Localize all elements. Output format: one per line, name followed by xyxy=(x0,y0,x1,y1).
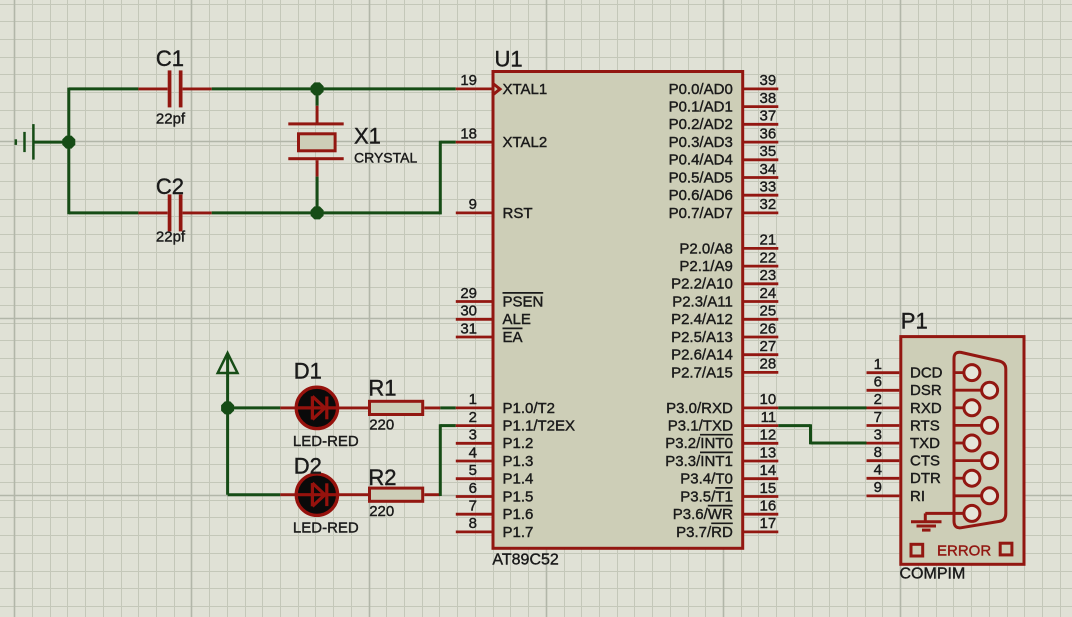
LED D1 xyxy=(280,406,295,409)
pin 32 P0.7/AD7 xyxy=(744,211,778,214)
svg-text:P1.5: P1.5 xyxy=(503,488,534,505)
resistor R1 xyxy=(370,401,423,414)
pin 8 CTS xyxy=(867,459,900,462)
LED D2 xyxy=(280,493,295,496)
svg-text:7: 7 xyxy=(469,498,477,515)
pin 2 RXD xyxy=(867,406,900,409)
svg-text:RI: RI xyxy=(910,488,925,505)
svg-text:CRYSTAL: CRYSTAL xyxy=(354,149,417,165)
pin 37 P0.2/AD2 xyxy=(744,123,778,126)
svg-text:D2: D2 xyxy=(294,454,322,479)
pin 25 P2.4/A12 xyxy=(744,318,778,321)
pin 1 P1.0/T2 xyxy=(456,406,492,409)
svg-text:R1: R1 xyxy=(368,375,396,400)
pin 3 P1.2 xyxy=(456,442,492,445)
svg-text:36: 36 xyxy=(760,125,777,142)
wire R2 up to pin2 xyxy=(439,424,442,496)
svg-text:P2.7/A15: P2.7/A15 xyxy=(671,364,733,381)
pin 10 P3.0/RXD xyxy=(744,406,778,409)
svg-text:37: 37 xyxy=(760,108,777,125)
pin 7 RTS xyxy=(867,424,900,427)
svg-text:39: 39 xyxy=(760,72,777,89)
wire P3.1 TXD xyxy=(778,424,810,427)
svg-text:38: 38 xyxy=(760,90,777,107)
svg-text:ERROR: ERROR xyxy=(937,542,991,559)
svg-text:P3.0/RXD: P3.0/RXD xyxy=(666,400,733,417)
wire gnd to junction xyxy=(33,141,68,144)
resistor R2 xyxy=(370,488,423,501)
crystal X1 xyxy=(316,89,319,106)
svg-text:23: 23 xyxy=(760,267,777,284)
svg-text:P3.1/TXD: P3.1/TXD xyxy=(668,418,733,435)
pin 14 P3.4/T0 xyxy=(744,477,778,480)
power arrow xyxy=(226,354,229,408)
pin 6 P1.5 xyxy=(456,495,492,498)
svg-text:8: 8 xyxy=(874,444,882,461)
DB9 shell xyxy=(954,352,1006,528)
svg-text:RTS: RTS xyxy=(910,417,940,434)
svg-text:220: 220 xyxy=(369,503,394,520)
svg-text:13: 13 xyxy=(760,444,777,461)
pin 29 PSEN xyxy=(456,300,492,303)
pin 5 P1.4 xyxy=(456,477,492,480)
svg-text:21: 21 xyxy=(760,232,777,249)
svg-text:U1: U1 xyxy=(495,47,523,72)
svg-text:X1: X1 xyxy=(354,124,381,149)
capacitor C1 xyxy=(138,87,167,90)
pin 4 DTR xyxy=(867,477,900,480)
wire R1 to pin1 xyxy=(440,406,456,409)
svg-text:33: 33 xyxy=(760,179,777,196)
svg-text:DTR: DTR xyxy=(910,470,941,487)
svg-text:14: 14 xyxy=(760,462,777,479)
svg-text:32: 32 xyxy=(760,196,777,213)
connector ground xyxy=(911,513,964,530)
pin 9 RI xyxy=(867,494,900,497)
svg-text:4: 4 xyxy=(874,462,882,479)
pin 4 P1.3 xyxy=(456,460,492,463)
svg-text:31: 31 xyxy=(460,320,477,337)
svg-text:12: 12 xyxy=(760,427,777,444)
svg-text:P3.2/INT0: P3.2/INT0 xyxy=(665,435,733,452)
svg-text:22: 22 xyxy=(760,249,777,266)
svg-text:RST: RST xyxy=(503,205,533,222)
svg-text:P2.6/A14: P2.6/A14 xyxy=(671,347,733,364)
svg-text:P1: P1 xyxy=(901,309,928,334)
svg-text:220: 220 xyxy=(369,416,394,433)
svg-text:26: 26 xyxy=(760,320,777,337)
svg-text:19: 19 xyxy=(460,72,477,89)
svg-text:P3.7/RD: P3.7/RD xyxy=(676,524,733,541)
svg-text:28: 28 xyxy=(760,356,777,373)
node XTAL1 junction xyxy=(311,82,324,95)
svg-text:8: 8 xyxy=(469,515,477,532)
ERROR indicator xyxy=(911,544,923,556)
svg-text:P3.5/T1: P3.5/T1 xyxy=(680,488,733,505)
svg-text:ALE: ALE xyxy=(503,311,531,328)
svg-text:P0.1/AD1: P0.1/AD1 xyxy=(669,99,733,116)
pin 15 P3.5/T1 xyxy=(744,495,778,498)
wire junction to D1 xyxy=(228,406,281,409)
ground xyxy=(16,124,34,160)
svg-text:4: 4 xyxy=(469,444,477,461)
svg-text:P0.4/AD4: P0.4/AD4 xyxy=(669,152,733,169)
wire C1 row left xyxy=(69,87,139,90)
wire C2 to corner xyxy=(212,211,442,214)
svg-text:D1: D1 xyxy=(294,359,322,384)
svg-text:EA: EA xyxy=(503,329,523,346)
svg-text:15: 15 xyxy=(760,480,777,497)
svg-text:P2.0/A8: P2.0/A8 xyxy=(679,240,732,257)
svg-text:6: 6 xyxy=(874,374,882,391)
node XTAL2 junction xyxy=(311,206,324,219)
pin 36 P0.3/AD3 xyxy=(744,141,778,144)
pin 6 DSR xyxy=(867,389,900,392)
node gnd junction xyxy=(62,136,75,149)
svg-text:10: 10 xyxy=(760,391,777,408)
pin 35 P0.4/AD4 xyxy=(744,158,778,161)
pin 24 P2.3/A11 xyxy=(744,300,778,303)
pin 7 P1.6 xyxy=(456,513,492,516)
svg-text:P1.2: P1.2 xyxy=(503,435,534,452)
DB9 pin lines xyxy=(954,373,982,496)
wire C1 to chip xyxy=(212,87,456,90)
DB9 holes left column xyxy=(964,365,980,381)
pin 2 P1.1/T2EX xyxy=(456,424,492,427)
wire up to XTAL2 pin xyxy=(439,141,442,214)
svg-text:P1.3: P1.3 xyxy=(503,453,534,470)
svg-text:P0.3/AD3: P0.3/AD3 xyxy=(669,134,733,151)
svg-text:29: 29 xyxy=(460,285,477,302)
pin 8 P1.7 xyxy=(456,531,492,534)
wire P3.0 RXD xyxy=(778,406,866,409)
svg-text:3: 3 xyxy=(469,427,477,444)
svg-text:COMPIM: COMPIM xyxy=(900,566,966,583)
svg-text:P2.3/A11: P2.3/A11 xyxy=(672,293,733,310)
svg-text:P0.0/AD0: P0.0/AD0 xyxy=(669,81,733,98)
svg-text:PSEN: PSEN xyxy=(503,293,544,310)
svg-text:TXD: TXD xyxy=(910,435,940,452)
pin 9 RST xyxy=(456,211,492,214)
svg-text:P0.2/AD2: P0.2/AD2 xyxy=(669,116,733,133)
svg-text:DSR: DSR xyxy=(910,382,942,399)
svg-text:P1.4: P1.4 xyxy=(503,471,534,488)
svg-text:RXD: RXD xyxy=(910,400,942,417)
svg-text:P1.6: P1.6 xyxy=(503,506,534,523)
svg-text:XTAL2: XTAL2 xyxy=(503,134,548,151)
capacitor C2 xyxy=(138,211,167,214)
pin 16 P3.6/WR xyxy=(744,513,778,516)
svg-text:16: 16 xyxy=(760,498,777,515)
svg-text:6: 6 xyxy=(469,480,477,497)
pin 34 P0.5/AD5 xyxy=(744,176,778,179)
svg-text:P2.1/A9: P2.1/A9 xyxy=(679,258,732,275)
svg-text:11: 11 xyxy=(761,409,777,426)
svg-text:CTS: CTS xyxy=(910,453,940,470)
svg-text:35: 35 xyxy=(760,143,777,160)
svg-text:17: 17 xyxy=(760,515,777,532)
pin 1 DCD xyxy=(867,371,900,374)
pin 28 P2.7/A15 xyxy=(744,371,778,374)
svg-text:P3.4/T0: P3.4/T0 xyxy=(680,471,733,488)
svg-text:LED-RED: LED-RED xyxy=(293,433,359,450)
pin 22 P2.1/A9 xyxy=(744,265,778,268)
svg-text:P3.3/INT1: P3.3/INT1 xyxy=(665,453,733,470)
svg-text:P2.4/A12: P2.4/A12 xyxy=(671,311,733,328)
pin 13 P3.3/INT1 xyxy=(744,460,778,463)
pin 11 P3.1/TXD xyxy=(744,424,778,427)
svg-text:LED-RED: LED-RED xyxy=(293,520,359,537)
pin 31 EA xyxy=(456,336,492,339)
svg-text:DCD: DCD xyxy=(910,365,943,382)
svg-text:P1.1/T2EX: P1.1/T2EX xyxy=(503,418,576,435)
IC U1 AT89C52 body xyxy=(493,72,743,549)
svg-text:30: 30 xyxy=(460,303,477,320)
pin 27 P2.6/A14 xyxy=(744,353,778,356)
pin 19 clock arrow xyxy=(494,84,500,94)
svg-text:2: 2 xyxy=(874,391,882,408)
svg-text:34: 34 xyxy=(760,161,777,178)
wire junction down to D2 row xyxy=(226,408,229,495)
wire left vertical xyxy=(67,88,70,215)
svg-text:9: 9 xyxy=(469,196,477,213)
pin 26 P2.5/A13 xyxy=(744,336,778,339)
svg-text:P2.5/A13: P2.5/A13 xyxy=(671,329,733,346)
svg-text:P2.2/A10: P2.2/A10 xyxy=(671,276,733,293)
pin 38 P0.1/AD1 xyxy=(744,105,778,108)
pin 33 P0.6/AD6 xyxy=(744,194,778,197)
svg-text:5: 5 xyxy=(469,462,477,479)
svg-text:2: 2 xyxy=(469,409,477,426)
node D1 junction xyxy=(221,401,234,414)
svg-text:P1.7: P1.7 xyxy=(503,524,534,541)
connector P1 body xyxy=(901,337,1024,565)
pin 21 P2.0/A8 xyxy=(744,247,778,250)
svg-text:27: 27 xyxy=(760,338,777,355)
pin 17 P3.7/RD xyxy=(744,531,778,534)
svg-text:3: 3 xyxy=(874,426,882,443)
svg-text:P0.6/AD6: P0.6/AD6 xyxy=(669,187,733,204)
overbars xyxy=(503,293,733,523)
svg-text:P3.6/WR: P3.6/WR xyxy=(673,506,733,523)
svg-text:C1: C1 xyxy=(156,46,184,71)
svg-text:C2: C2 xyxy=(156,174,184,199)
pin 18 XTAL2 xyxy=(456,141,492,144)
svg-text:P0.7/AD7: P0.7/AD7 xyxy=(669,205,733,222)
svg-text:25: 25 xyxy=(760,303,777,320)
svg-text:22pf: 22pf xyxy=(156,111,186,128)
svg-text:XTAL1: XTAL1 xyxy=(503,81,548,98)
pin 30 ALE xyxy=(456,318,492,321)
pin 39 P0.0/AD0 xyxy=(744,88,778,91)
svg-text:9: 9 xyxy=(874,479,882,496)
svg-text:18: 18 xyxy=(460,125,477,142)
pin 23 P2.2/A10 xyxy=(744,282,778,285)
svg-text:7: 7 xyxy=(874,409,882,426)
DB9 holes right column xyxy=(982,382,998,398)
svg-text:AT89C52: AT89C52 xyxy=(492,551,559,568)
svg-text:24: 24 xyxy=(760,285,777,302)
svg-text:P1.0/T2: P1.0/T2 xyxy=(503,400,556,417)
svg-text:R2: R2 xyxy=(368,465,396,490)
pin 12 P3.2/INT0 xyxy=(744,442,778,445)
pin 3 TXD xyxy=(867,442,900,445)
svg-text:1: 1 xyxy=(874,356,882,373)
svg-text:P0.5/AD5: P0.5/AD5 xyxy=(669,169,733,186)
svg-text:22pf: 22pf xyxy=(156,229,186,246)
wire C2 row left xyxy=(69,211,139,214)
pin 19 XTAL1 xyxy=(456,88,492,91)
svg-text:1: 1 xyxy=(469,391,477,408)
